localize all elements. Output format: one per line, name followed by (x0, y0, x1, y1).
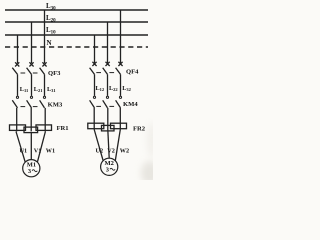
wire: QF3 pole3 tap from L30 (44, 10, 46, 63)
wire: QF3 pole1 to KM3 (17, 74, 19, 96)
svg-text:L11: L11 (20, 86, 29, 93)
motor M1 circle (23, 160, 40, 177)
wire: QF4 pole2 tap from L20 (107, 22, 109, 63)
contactor KM3 pole1 blade (12, 100, 17, 108)
svg-text:QF4: QF4 (126, 69, 139, 76)
breaker QF4 pole1 x-mark (92, 62, 96, 66)
wire: FR2 to motor M2 phase W (115, 130, 120, 161)
svg-text:V1: V1 (34, 147, 42, 154)
breaker QF3 pole2 blade (27, 68, 32, 75)
svg-text:3: 3 (106, 166, 109, 173)
wire: QF4 pole3 to KM4 (120, 74, 122, 96)
svg-text:U2: U2 (96, 147, 104, 154)
breaker QF4 pole1 blade (90, 68, 95, 75)
svg-text:FR1: FR1 (57, 125, 69, 132)
scan shading bottom-right corner (141, 161, 159, 185)
bus line L10 (5, 34, 148, 36)
wire: QF3 pole3 to KM3 (44, 74, 46, 96)
breaker QF3 linkage dash 1 (21, 72, 26, 74)
breaker QF3 pole3 x-mark (42, 62, 46, 66)
contactor KM4 pole2 circle (106, 96, 108, 98)
contactor KM3 pole3 circle (43, 96, 45, 98)
svg-text:KM4: KM4 (123, 101, 138, 108)
contactor KM4 pole1 circle (93, 96, 95, 98)
svg-text:KM3: KM3 (48, 101, 63, 108)
breaker QF4 linkage dash 2 (109, 72, 114, 74)
wire: FR1 to motor M1 phase W (37, 132, 45, 163)
svg-text:L12: L12 (96, 85, 105, 92)
motor M2 circle (101, 158, 118, 175)
contactor KM3 pole3 blade (40, 100, 45, 108)
wire: FR2 to motor M2 phase U (94, 130, 103, 161)
contactor KM3 pole1 circle (16, 96, 18, 98)
thermal relay FR1 heater box right (36, 125, 52, 130)
contactor KM4 linkage dash 2 (109, 105, 114, 107)
wire: FR2 to motor M2 phase V (108, 130, 109, 159)
wire: KM4 pole3 to FR2 (119, 108, 121, 130)
wire: KM3 pole2 to FR1 (30, 108, 32, 131)
breaker QF3 pole3 blade (40, 68, 45, 75)
svg-text:N: N (47, 39, 52, 47)
breaker QF4 pole3 blade (116, 68, 121, 75)
contactor KM4 pole2 blade (103, 100, 108, 108)
svg-text:L22: L22 (109, 85, 118, 92)
neutral line N (dashed) (5, 46, 148, 48)
contactor KM3 linkage dash 2 (33, 106, 38, 108)
breaker QF3 pole1 blade (12, 68, 17, 75)
thermal relay FR2 heater box right (111, 123, 127, 129)
svg-text:FR2: FR2 (133, 125, 146, 132)
wire: QF3 pole2 to KM3 (31, 74, 33, 96)
contactor KM4 pole3 blade (116, 100, 121, 108)
contactor KM4 pole1 blade (90, 100, 95, 108)
breaker QF3 linkage dash 2 (33, 72, 38, 74)
breaker QF4 pole2 x-mark (106, 62, 110, 66)
wire: QF3 pole1 tap from L10 (17, 35, 19, 63)
bus line L20 (5, 21, 148, 23)
svg-text:U1: U1 (20, 147, 28, 154)
contactor KM3 linkage dash 1 (21, 106, 26, 108)
bus line L30 (5, 9, 148, 11)
wire: QF4 pole1 tap from L10 (94, 35, 96, 63)
svg-text:W2: W2 (120, 147, 129, 154)
wire: QF4 pole3 tap from L30 (120, 10, 122, 63)
thermal relay FR1 heater box left (10, 125, 26, 130)
wire: KM3 pole1 to FR1 (16, 108, 18, 131)
breaker QF3 pole2 x-mark (29, 62, 33, 66)
contactor KM4 pole3 circle (119, 96, 121, 98)
svg-text:L10: L10 (46, 26, 56, 36)
breaker QF4 pole3 x-mark (118, 62, 122, 66)
thermal relay FR2 heater box left (88, 123, 104, 129)
contactor KM3 pole2 blade (27, 100, 32, 108)
wire: QF3 pole2 tap from L20 (31, 22, 33, 63)
svg-text:L21: L21 (34, 86, 43, 93)
wire: FR1 to motor M1 phase V (30, 133, 32, 160)
svg-text:W1: W1 (46, 147, 55, 154)
wire: KM4 pole2 to FR2 (107, 108, 109, 130)
wire: QF4 pole1 to KM4 (94, 74, 96, 96)
thermal relay FR1 heater box middle (24, 127, 38, 133)
breaker QF4 linkage dash 1 (96, 72, 101, 74)
svg-text:L31: L31 (47, 86, 56, 93)
wire: QF4 pole2 to KM4 (107, 74, 109, 96)
wire: KM4 pole1 to FR2 (93, 108, 95, 130)
wire: FR1 to motor M1 phase U (16, 132, 25, 163)
svg-text:L32: L32 (122, 85, 131, 92)
breaker QF4 pole2 blade (103, 68, 108, 75)
thermal relay FR2 heater box middle (102, 125, 115, 130)
contactor KM3 pole2 circle (30, 96, 32, 98)
svg-text:V2: V2 (107, 147, 115, 154)
wire: KM3 pole3 to FR1 (44, 108, 46, 131)
breaker QF3 pole1 x-mark (15, 62, 19, 66)
svg-text:QF3: QF3 (48, 70, 61, 77)
contactor KM4 linkage dash 1 (96, 105, 101, 107)
svg-text:3: 3 (28, 168, 31, 175)
